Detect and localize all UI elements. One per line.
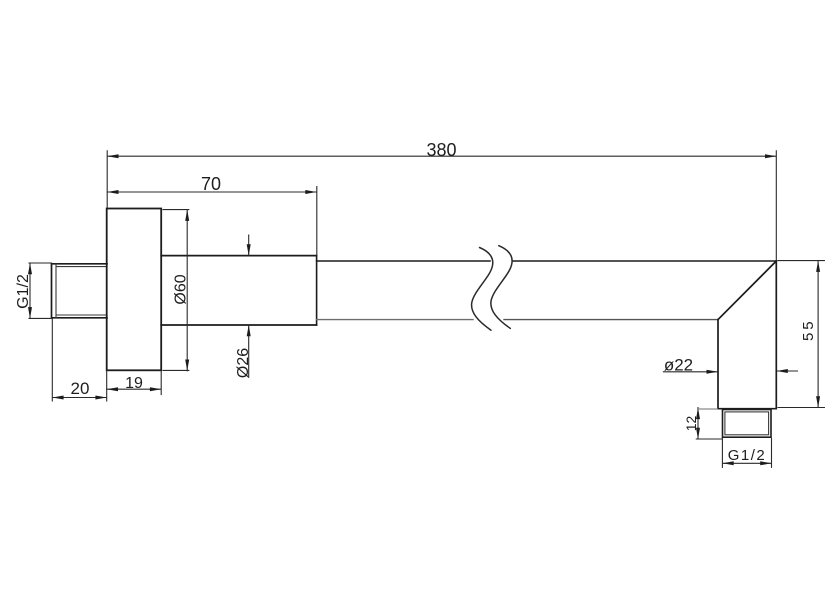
svg-text:19: 19 xyxy=(125,375,143,392)
dimension diameter 60 xyxy=(163,210,189,371)
wall flange (escutcheon) xyxy=(107,209,162,371)
dimension 12 xyxy=(700,408,718,410)
svg-text:70: 70 xyxy=(201,174,221,194)
dimension 70 xyxy=(107,187,317,256)
break (squiggle) lines xyxy=(472,246,513,331)
svg-text:380: 380 xyxy=(426,140,456,160)
dimension 20 xyxy=(52,319,106,401)
svg-text:12: 12 xyxy=(683,416,699,432)
dimension G1/2 outlet xyxy=(722,439,771,468)
dimension diameter 26 leader arrows xyxy=(248,235,250,377)
arm pipe diameter 26 section xyxy=(161,256,316,325)
svg-text:20: 20 xyxy=(71,379,90,398)
svg-text:55: 55 xyxy=(800,318,817,341)
step between pipe sections xyxy=(316,256,318,325)
wall thread nipple G1/2 outer profile xyxy=(52,264,108,318)
dimension 55 xyxy=(778,261,824,408)
arm pipe diameter 22 section top edge xyxy=(317,260,777,262)
svg-text:Ø26: Ø26 xyxy=(235,348,252,378)
elbow corner of arm xyxy=(718,261,776,409)
wall thread nipple root lines and chamfer xyxy=(56,264,107,318)
outlet thread fitting root rect xyxy=(725,412,769,435)
dimension G1/2 wall thread xyxy=(29,263,52,318)
svg-text:G1/2: G1/2 xyxy=(15,274,32,309)
svg-text:Ø60: Ø60 xyxy=(173,274,190,304)
svg-text:G1/2: G1/2 xyxy=(728,447,767,464)
dimension 19 xyxy=(107,371,162,395)
dimension diameter 22 xyxy=(663,370,797,373)
outlet thread fitting G1/2 outer rect xyxy=(723,410,772,438)
svg-text:ø22: ø22 xyxy=(664,356,693,375)
dimension 380 xyxy=(107,151,776,260)
arm pipe diameter 22 section bottom edge xyxy=(317,319,473,321)
